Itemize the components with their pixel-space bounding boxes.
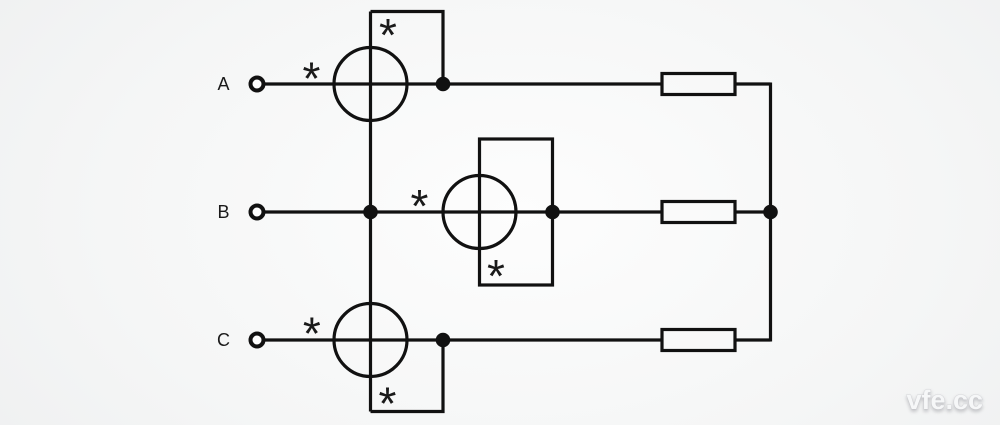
terminal B [251,206,264,219]
svg-text:*: * [411,180,429,232]
resistor load RB [662,202,735,223]
wire phase B from terminal to resistor [264,210,662,213]
svg-text:vfe.cc: vfe.cc [906,385,983,415]
svg-text:A: A [217,74,229,94]
wattmeter W2 current coil [443,176,516,249]
wattmeter W1 current coil [334,48,407,121]
junction node on phase B at vertical branch [363,205,378,220]
svg-text:B: B [217,202,229,222]
wire neutral bus on right [769,83,772,342]
svg-text:*: * [379,9,397,61]
voltage coil box W2 [480,139,553,285]
voltage coil box W1 [371,12,444,85]
svg-text:*: * [303,308,321,360]
resistor load RA [662,74,735,95]
svg-text:C: C [217,330,230,350]
wire phase B from resistor to bus [735,210,771,213]
voltage coil box W3 [371,340,444,412]
junction node on neutral bus [763,205,778,220]
terminal C [251,334,264,347]
junction node on phase A at W1 box [436,77,451,92]
svg-text:*: * [379,378,397,425]
junction node on phase B at W2 box [545,205,560,220]
svg-text:*: * [487,250,505,302]
wire phase C from resistor to bus [735,338,771,341]
wattmeter W3 current coil [334,304,407,377]
wire phase A from resistor to bus [735,82,771,85]
resistor load RC [662,330,735,351]
wire phase C from terminal to resistor [264,338,662,341]
svg-text:*: * [303,53,321,105]
wire phase A from terminal to resistor [264,82,662,85]
wire vertical voltage branch through W1 and W3 [369,12,372,412]
terminal A [251,78,264,91]
junction node on phase C at W3 box [436,333,451,348]
